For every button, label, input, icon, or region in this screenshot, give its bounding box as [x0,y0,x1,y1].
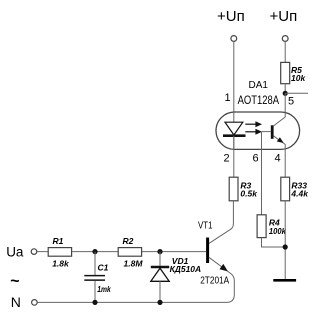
phototransistor of optocoupler [271,125,274,139]
svg-text:0.5k: 0.5k [240,189,258,199]
svg-text:6: 6 [253,152,259,164]
wire pin5 inside body [284,112,286,117]
wire main horizontal Ua line [37,251,206,253]
wire node to pin5 [284,93,286,115]
diode VD1 [159,252,161,267]
svg-text:+Uп: +Uп [217,8,245,25]
resistor R2 [118,248,141,257]
node junction VD1 tap [157,249,162,254]
ground [273,279,296,282]
svg-text:5: 5 [288,96,294,108]
resistor R1 [48,248,71,257]
svg-text:2T201A: 2T201A [200,276,229,287]
wire R4 bottom to junction [262,238,286,247]
base lead [262,131,271,133]
svg-text:AOT128A: AOT128A [238,93,280,107]
resistor R4 [257,215,266,238]
svg-text:1.8k: 1.8k [52,258,70,268]
svg-text:+Uп: +Uп [270,8,298,25]
svg-text:R1: R1 [53,236,64,246]
svg-text:2: 2 [224,152,230,164]
node junction R4/R33 [283,244,288,249]
terminal +Up left [231,36,237,42]
wire +Up left to optocoupler pin1 [233,42,235,121]
svg-text:КД510А: КД510А [170,264,202,274]
svg-text:4.4k: 4.4k [290,189,308,199]
svg-text:10k: 10k [291,73,306,83]
svg-text:VT1: VT1 [198,220,213,231]
node junction C1 tap [92,249,97,254]
wire R3 to VT1 collector [209,201,234,244]
svg-text:1.8M: 1.8M [124,258,144,268]
LED diode of optocoupler [233,136,235,150]
capacitor C1 [94,252,96,275]
resistor R33 [281,177,290,201]
terminal Ua [31,249,37,255]
light arrow 2 [245,131,256,133]
wire pin6 to R4 [261,132,263,215]
wire pin2 to R3 [233,136,235,178]
collector lead [273,117,285,126]
svg-text:~: ~ [10,273,19,290]
svg-text:C1: C1 [98,262,109,272]
node junction VD1 bottom [157,300,162,305]
wire +Up right to R5 [284,42,286,63]
svg-text:4: 4 [275,152,281,164]
svg-text:Ua: Ua [6,244,24,259]
wire output to right edge [285,92,308,94]
wire pin4 to R33 [284,144,286,177]
wire pin1 inside body [233,112,235,122]
terminal N [32,300,38,306]
node output junction [283,91,288,96]
resistor R3 [229,177,238,201]
terminal +Up right [282,36,288,42]
svg-text:DA1: DA1 [249,80,269,91]
emitter lead with arrow [273,136,285,145]
VT1 emitter with arrow to bottom rail [37,257,234,302]
svg-text:1: 1 [225,92,231,104]
light arrow 1 [245,123,256,125]
transistor VT1 [206,238,209,264]
optocoupler DA1 body [216,112,300,149]
svg-text:1mk: 1mk [97,284,112,294]
svg-text:R2: R2 [123,236,134,246]
node junction C1 bottom [92,300,97,305]
svg-text:N: N [11,294,21,310]
wire R5 to node [284,84,286,94]
wire R33 bottom to ground [284,201,286,280]
svg-text:100k: 100k [269,226,287,236]
resistor R5 [281,62,290,83]
